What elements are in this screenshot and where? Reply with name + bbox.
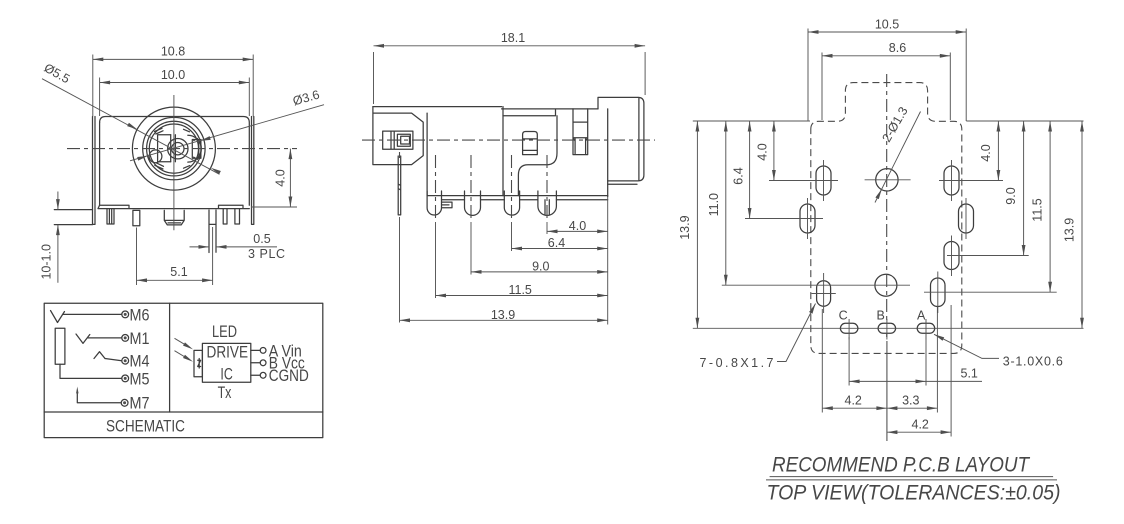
svg-text:3-1.0X0.6: 3-1.0X0.6 (1003, 355, 1063, 369)
M7 arrow contact (77, 391, 121, 403)
svg-text:0.5: 0.5 (253, 232, 270, 246)
front pin 2 (133, 210, 140, 225)
front vertical centerline (173, 95, 175, 230)
ring circle outer (147, 121, 202, 176)
svg-text:M6: M6 (130, 306, 150, 324)
wire M6 (63, 313, 122, 315)
dim 0.5 / 3 PLC (190, 246, 278, 248)
row 11.0 ext through bottom hole (722, 284, 910, 286)
slot pad L1 (816, 166, 831, 195)
side pin 1 (427, 191, 441, 215)
slot pad R1 (944, 166, 959, 195)
cavity S-profile (518, 116, 557, 196)
front body left edge (99, 123, 101, 206)
side body left edge (426, 113, 428, 196)
slot pad R4 (931, 278, 946, 307)
side pin 3 (504, 191, 519, 215)
svg-text:4.0: 4.0 (569, 219, 586, 233)
row 9.0 ext (947, 255, 1029, 257)
svg-text:LED: LED (212, 323, 237, 341)
sleeve resistor rect (55, 328, 65, 364)
svg-text:DRIVE: DRIVE (207, 343, 249, 361)
LED emission arrow 1 (175, 338, 189, 346)
dim 9.0 right (1023, 121, 1025, 256)
terminal M6 (122, 311, 129, 318)
slot pad R2 (959, 204, 974, 233)
right side contact (192, 138, 201, 159)
tall contact (573, 109, 588, 155)
svg-text:18.1: 18.1 (501, 31, 525, 45)
svg-text:7-0.8X1.7: 7-0.8X1.7 (700, 356, 774, 370)
abc pad vertical ticks (840, 319, 934, 340)
small circle r10 (168, 139, 188, 159)
pin 1 notch (442, 202, 453, 208)
ext lines 5.1 (849, 334, 926, 386)
svg-text:10.5: 10.5 (875, 17, 899, 31)
front body bottom edge (98, 205, 249, 208)
LED component rect (194, 350, 202, 376)
schematic outer box (44, 303, 323, 437)
hole 2-dia1.3 top (876, 169, 898, 191)
dim 13.9 right (1081, 121, 1083, 328)
tab hole inner square (397, 134, 410, 146)
svg-text:5.1: 5.1 (961, 367, 978, 381)
middle contact (rounded top) (523, 132, 538, 155)
dim 3.3 (887, 407, 938, 409)
svg-text:SCHEMATIC: SCHEMATIC (106, 418, 185, 436)
dim 10.8 (93, 55, 253, 117)
ring notch ticks (155, 128, 190, 169)
svg-text:5.1: 5.1 (170, 265, 187, 279)
pin 4 inner lines (545, 200, 549, 215)
front pin 6 (235, 209, 240, 224)
dim 11.5 right (1049, 121, 1051, 292)
svg-text:4.0: 4.0 (273, 169, 287, 186)
svg-text:11.5: 11.5 (1031, 198, 1045, 221)
side body right edge (607, 109, 609, 197)
svg-text:4.0: 4.0 (979, 144, 993, 161)
dim 11.0 (725, 121, 727, 285)
center contact bars (171, 135, 176, 162)
svg-text:4.2: 4.2 (845, 394, 862, 408)
leader 7-0.8X1.7 (777, 304, 816, 362)
row 11.5 ext (924, 291, 1057, 293)
ring circle inner (149, 124, 198, 173)
dim 4.2 left (822, 407, 887, 409)
dim 10-1.0 (57, 192, 59, 283)
svg-text:A: A (917, 309, 926, 323)
lower-left notch circle (149, 150, 162, 163)
front right flange (252, 117, 254, 225)
svg-text:8.6: 8.6 (889, 41, 906, 55)
right reference extension (607, 197, 609, 325)
svg-text:TOP VIEW(TOLERANCES:±0.05): TOP VIEW(TOLERANCES:±0.05) (767, 481, 1061, 504)
svg-text:11.0: 11.0 (707, 193, 721, 216)
svg-text:4.0: 4.0 (755, 143, 769, 160)
underline double (766, 477, 1057, 480)
slot pad L2 (800, 204, 815, 233)
front left foot plate (54, 210, 92, 225)
terminal M5 (122, 375, 129, 382)
dim 11.5 side (436, 295, 608, 297)
schematic divider horizontal (44, 411, 323, 413)
dim 8.6 (822, 53, 950, 121)
small circle r6 (172, 143, 184, 155)
FRONT VIEW (39, 45, 324, 286)
dim 13.9 side (400, 319, 608, 321)
pin B Vcc (251, 362, 260, 364)
top reference line (693, 120, 1084, 122)
contact M4 caret (94, 352, 105, 359)
barrel (side) (598, 97, 644, 184)
wire M4 (105, 359, 122, 361)
svg-text:6.4: 6.4 (732, 167, 746, 184)
pcb dashed outline (811, 83, 962, 354)
svg-text:6.4: 6.4 (548, 236, 565, 250)
terminal M4 (122, 357, 129, 364)
svg-text:13.9: 13.9 (1063, 218, 1077, 242)
pad L3 center tick (812, 293, 836, 295)
svg-text:9.0: 9.0 (1004, 187, 1018, 204)
svg-text:9.0: 9.0 (532, 260, 549, 274)
pin centerlines (400, 152, 548, 222)
row2 horizontal ext (6.4) (745, 218, 823, 220)
TITLES (766, 454, 1061, 505)
pad centerlines vertical (808, 160, 967, 313)
terminal M1 (122, 335, 129, 342)
main vertical centerline (886, 74, 888, 341)
svg-text:M7: M7 (130, 395, 150, 413)
dim 10.5 (808, 29, 966, 122)
cavity right end arc (188, 135, 201, 162)
pad B (878, 323, 896, 333)
switch contact M1 (76, 334, 90, 343)
pin A Vin (251, 349, 260, 351)
side body bottom (427, 196, 608, 200)
SCHEMATIC BOX (44, 303, 323, 437)
svg-text:M5: M5 (130, 370, 150, 388)
ext lines bottom (400, 217, 548, 323)
dim 4.0 left (773, 121, 775, 181)
switch contact M6 (51, 311, 65, 323)
dim 4.2 bottom (887, 431, 951, 433)
leader 2-dia1.3 (875, 112, 921, 203)
front pin 5 (223, 209, 227, 224)
pad A (917, 323, 935, 333)
pad C (840, 323, 858, 333)
side pin 2 (465, 191, 481, 215)
dim 4.0 side (547, 230, 608, 232)
dim 13.9 left (696, 121, 698, 328)
wire M1 (88, 337, 122, 339)
svg-text:M4: M4 (130, 353, 150, 371)
terminal M7 (121, 399, 128, 406)
SIDE VIEW (362, 31, 655, 325)
dim 5.1 pcb (849, 380, 982, 382)
side horizontal centerline (362, 139, 655, 141)
side pin 4 (538, 191, 557, 215)
dim 6.4 left (749, 121, 751, 219)
bottom reference line (693, 327, 1084, 329)
svg-text:13.9: 13.9 (678, 215, 692, 239)
svg-text:13.9: 13.9 (491, 308, 515, 322)
side body top edge (373, 107, 598, 116)
slot pad R3 (944, 242, 959, 270)
side mounting tab (373, 107, 423, 165)
leader dia 5.5 (42, 79, 220, 175)
cavity rectangle (158, 135, 171, 162)
pin C GND (251, 374, 260, 376)
internal vertical line (502, 107, 504, 196)
dim 9.0 side (471, 271, 608, 273)
svg-text:C: C (839, 309, 848, 323)
dim 4.0 front (251, 149, 297, 207)
svg-text:10-1.0: 10-1.0 (39, 244, 53, 279)
slot pad L3 (817, 281, 831, 307)
svg-text:3 PLC: 3 PLC (248, 247, 285, 261)
front left flange (93, 117, 96, 225)
svg-text:4.2: 4.2 (912, 418, 929, 432)
dim 6.4 side (512, 248, 608, 250)
svg-text:CGND: CGND (269, 367, 309, 385)
svg-text:11.5: 11.5 (508, 283, 531, 297)
ext lines 4.2/3.3 (822, 305, 951, 441)
svg-text:M1: M1 (130, 330, 150, 348)
svg-text:B: B (877, 309, 885, 323)
outer circle (barrel face) (132, 107, 215, 190)
front pin 4 (0.5 plc) (209, 210, 216, 253)
left bracket leg (398, 156, 401, 215)
second circle (143, 117, 205, 179)
leader 3-1.0X0.6 (934, 334, 999, 358)
svg-text:10.8: 10.8 (161, 45, 185, 59)
LED chip mark (198, 359, 201, 369)
front center pin (164, 210, 184, 225)
svg-text:10.0: 10.0 (161, 68, 185, 82)
dim 10.0 (100, 78, 250, 117)
svg-text:3.3: 3.3 (902, 394, 919, 408)
front horizontal centerline (67, 148, 297, 150)
tab hole slot (383, 131, 413, 149)
svg-text:IC: IC (220, 365, 232, 383)
dim 5.1 front (137, 227, 214, 285)
PCB VIEW (678, 17, 1084, 441)
front body outline (100, 117, 250, 206)
svg-text:Tx: Tx (218, 384, 232, 402)
front pin 1 (107, 209, 114, 224)
LED emission arrow 2 (175, 351, 189, 359)
leader dia 3.6 (130, 105, 324, 161)
dim 18.1 (374, 46, 646, 104)
wire M5 (60, 364, 122, 378)
hole bottom (875, 274, 897, 296)
drive IC box (202, 343, 250, 382)
row1 horizontal lines (769, 179, 1003, 182)
schematic divider vertical (169, 303, 171, 412)
svg-text:RECOMMEND P.C.B LAYOUT: RECOMMEND P.C.B LAYOUT (772, 454, 1031, 477)
dim 4.0 right (997, 121, 999, 181)
